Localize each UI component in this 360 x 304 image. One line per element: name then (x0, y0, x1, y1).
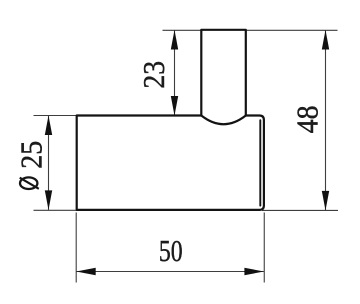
svg-text:48: 48 (291, 105, 325, 133)
svg-text:23: 23 (138, 61, 172, 89)
svg-text:25: 25 (15, 141, 49, 169)
svg-text:50: 50 (159, 233, 183, 268)
